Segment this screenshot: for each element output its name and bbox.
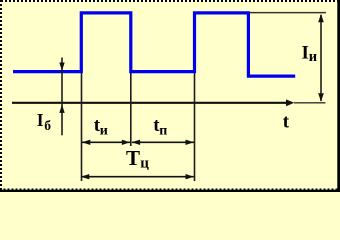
T_c right arrowhead: [186, 174, 195, 179]
t_i right arrowhead: [122, 140, 131, 145]
I_b down arrowhead at baseline: [59, 63, 64, 71]
solid bottom edge bar: [0, 190, 340, 192]
svg-text:б: б: [44, 118, 51, 133]
svg-text:и: и: [309, 49, 317, 65]
t_i left arrowhead: [82, 140, 91, 145]
pulse waveform (blue): [13, 13, 295, 76]
svg-text:и: и: [100, 124, 108, 139]
solid right edge bar: [337, 0, 340, 192]
time axis arrowhead: [286, 99, 294, 106]
svg-text:I: I: [302, 43, 309, 64]
svg-text:ц: ц: [140, 156, 149, 172]
time axis line: [12, 102, 288, 104]
I_b dimension vertical line: [61, 58, 63, 136]
T_c left arrowhead: [81, 174, 90, 179]
dotted frame border: [1, 1, 339, 190]
extension line pulse1 rising edge: [81, 73, 83, 181]
extension line pulse2 rising edge: [194, 73, 196, 181]
I_i dimension top arrowhead: [318, 14, 324, 22]
extension line pulse1 falling edge: [130, 73, 132, 146]
I_i dimension vertical line: [320, 15, 322, 101]
t_i dimension line: [82, 141, 130, 143]
I_b up arrowhead at axis: [59, 105, 64, 113]
T_c dimension line: [81, 176, 194, 178]
svg-text:T: T: [126, 146, 140, 170]
axis thin extension to right: [294, 102, 326, 104]
pulse top level reference line: [249, 12, 326, 14]
t_p dimension line: [132, 141, 194, 143]
svg-text:п: п: [159, 124, 167, 139]
svg-text:I: I: [37, 110, 44, 130]
I_i dimension bottom arrowhead: [318, 93, 324, 102]
t_p right arrowhead: [186, 140, 195, 145]
t_p left arrowhead: [132, 140, 141, 145]
svg-text:t: t: [283, 112, 290, 133]
